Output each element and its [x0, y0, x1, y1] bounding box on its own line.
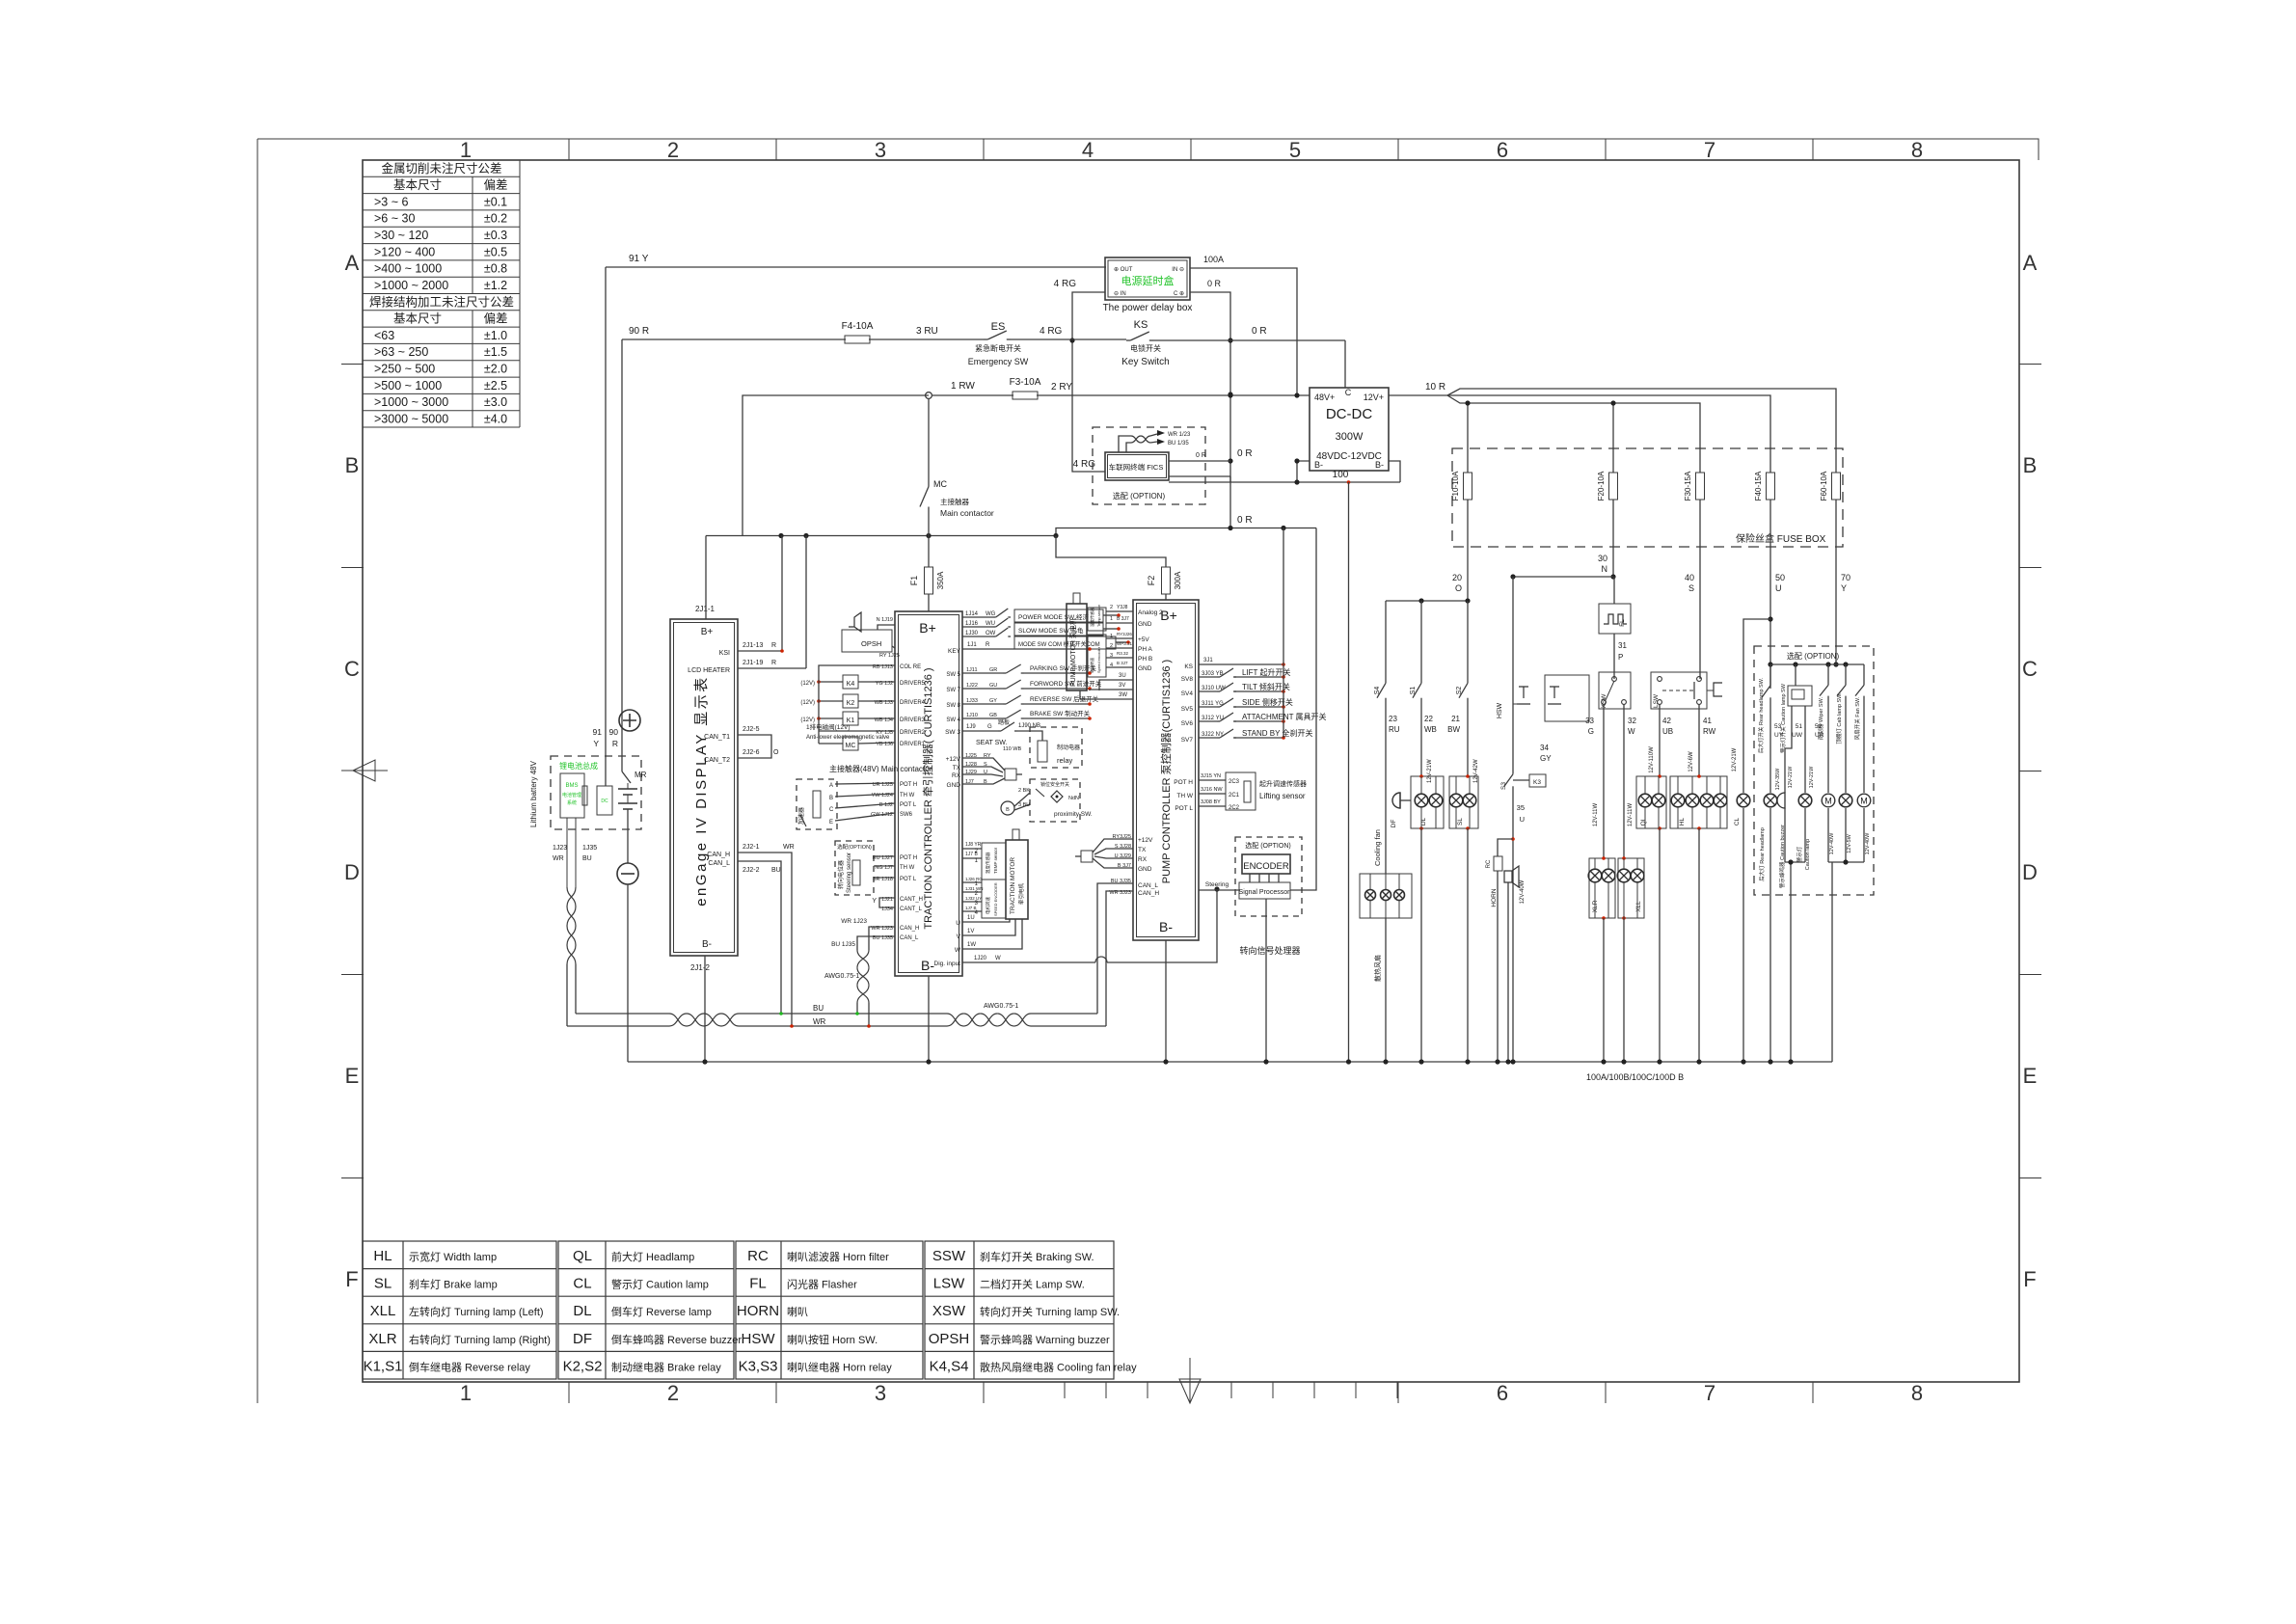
svg-text:金属切削未注尺寸公差: 金属切削未注尺寸公差 — [381, 161, 501, 176]
svg-text:DF: DF — [573, 1331, 592, 1347]
svg-text:12V-21W: 12V-21W — [1788, 766, 1794, 788]
svg-text:2J1-1: 2J1-1 — [695, 605, 716, 613]
svg-text:CANT_L: CANT_L — [900, 907, 923, 912]
pump motor temp sensor box — [1088, 604, 1133, 631]
svg-text:2J1-19: 2J1-19 — [743, 660, 764, 666]
svg-text:1J7 B: 1J7 B — [965, 906, 977, 910]
svg-text:⊖ IN: ⊖ IN — [1114, 291, 1126, 297]
svg-text:HL: HL — [1679, 817, 1686, 826]
svg-text:2 BK: 2 BK — [1018, 788, 1030, 794]
svg-text:DL: DL — [573, 1303, 591, 1319]
enGage KSI wire 2J1-13 R — [738, 536, 784, 653]
svg-text:锂电池总成: 锂电池总成 — [559, 761, 598, 771]
CAN bus WR line — [567, 1017, 1106, 1026]
traction motor block — [1006, 829, 1028, 919]
svg-text:±0.1: ±0.1 — [484, 195, 507, 208]
svg-text:F30-15A: F30-15A — [1684, 471, 1692, 501]
traction comm connector — [946, 753, 1022, 789]
svg-text:12V-110W: 12V-110W — [1649, 746, 1655, 773]
svg-text:WU: WU — [986, 621, 995, 627]
svg-text:S: S — [1688, 583, 1694, 593]
svg-text:SW 8: SW 8 — [946, 703, 960, 709]
svg-text:R3.32: R3.32 — [1117, 651, 1129, 656]
svg-text:选配 (OPTION): 选配 (OPTION) — [1787, 651, 1840, 661]
svg-text:CANT_H: CANT_H — [900, 897, 923, 903]
traction dig input pin — [934, 886, 1220, 967]
svg-text:RY 1J25: RY 1J25 — [879, 653, 900, 659]
svg-text:LSW: LSW — [933, 1276, 965, 1292]
svg-text:Steering: Steering — [1205, 881, 1229, 888]
rear headlamp switch — [1757, 664, 1770, 753]
svg-text:>3000 ~ 5000: >3000 ~ 5000 — [374, 413, 448, 426]
svg-text:主接触器: 主接触器 — [940, 497, 969, 506]
svg-text:20: 20 — [1452, 573, 1462, 582]
svg-text:0 R: 0 R — [1207, 279, 1222, 288]
svg-text:42: 42 — [1662, 717, 1671, 725]
column numbers top — [460, 138, 1923, 162]
traction U V W motor wires — [955, 915, 1022, 954]
svg-text:CAN_T1: CAN_T1 — [704, 734, 730, 741]
svg-text:12V-11W: 12V-11W — [1593, 803, 1599, 827]
drawing outer border — [257, 139, 2039, 1403]
svg-text:S4: S4 — [1374, 687, 1381, 695]
svg-text:喇叭: 喇叭 — [787, 1305, 808, 1318]
relay K2 — [800, 694, 895, 708]
fuse F40-15A — [1754, 471, 1775, 501]
svg-text:HSW: HSW — [1497, 702, 1503, 718]
legend table — [363, 1241, 556, 1379]
power delay box KS1 — [1103, 257, 1193, 313]
svg-text:RC: RC — [747, 1248, 769, 1264]
svg-text:B+: B+ — [1160, 608, 1177, 623]
wire 34 GY — [1540, 744, 1552, 763]
svg-text:倒车蜂鸣器 Reverse buzzer: 倒车蜂鸣器 Reverse buzzer — [611, 1333, 742, 1346]
svg-text:LCD HEATER: LCD HEATER — [688, 667, 730, 674]
svg-text:3V: 3V — [1119, 683, 1125, 689]
svg-text:PH B: PH B — [1138, 656, 1152, 663]
svg-text:KS: KS — [1134, 319, 1148, 331]
tolerance table — [363, 160, 520, 427]
svg-text:制动继电器 Brake relay: 制动继电器 Brake relay — [611, 1361, 721, 1373]
svg-text:焊接结构加工未注尺寸公差: 焊接结构加工未注尺寸公差 — [369, 294, 514, 309]
svg-text:1J8 YR: 1J8 YR — [965, 842, 982, 848]
svg-text:DF: DF — [1391, 820, 1397, 828]
svg-text:1: 1 — [1110, 616, 1113, 622]
svg-text:7: 7 — [1704, 138, 1715, 162]
svg-text:SW 5: SW 5 — [946, 672, 960, 678]
turning lamp left XLL group — [1617, 856, 1644, 920]
svg-text:1J10: 1J10 — [966, 713, 978, 718]
svg-text:U: U — [956, 920, 960, 927]
svg-text:警示灯 Caution lamp: 警示灯 Caution lamp — [611, 1278, 709, 1291]
svg-text:转向灯开关 Turning lamp SW.: 转向灯开关 Turning lamp SW. — [980, 1305, 1120, 1318]
svg-text:23: 23 — [1389, 715, 1397, 723]
svg-text:RW: RW — [1703, 727, 1716, 736]
svg-text:S1: S1 — [1410, 687, 1417, 695]
steering label wire — [1199, 881, 1239, 890]
svg-text:电池管理: 电池管理 — [562, 792, 581, 798]
svg-text:风扇开关 Fan SW.: 风扇开关 Fan SW. — [1853, 696, 1861, 740]
svg-text:Emergency SW: Emergency SW — [968, 357, 1029, 366]
svg-text:>63 ~ 250: >63 ~ 250 — [374, 345, 428, 359]
svg-text:DRIVER2: DRIVER2 — [900, 730, 926, 736]
svg-text:>250 ~ 500: >250 ~ 500 — [374, 363, 435, 376]
svg-text:GB: GB — [989, 713, 997, 718]
svg-text:XLR: XLR — [368, 1331, 396, 1347]
bottom B- bus 100A 100B 100C 100D — [628, 887, 1832, 1082]
wire 91 Y top rail — [606, 254, 1106, 267]
FICS telematics box — [1105, 452, 1169, 480]
svg-text:1J1: 1J1 — [967, 642, 977, 648]
horn switch HSW buttons — [1497, 577, 1589, 771]
svg-text:The power delay box: The power delay box — [1103, 303, 1193, 313]
width lamp HL group — [1670, 774, 1727, 830]
svg-text:B+: B+ — [919, 620, 936, 636]
svg-text:5: 5 — [1289, 138, 1301, 162]
svg-text:BU: BU — [813, 1004, 824, 1013]
rear headlamp wire to bus — [1769, 808, 1771, 1062]
svg-text:Caution lamp: Caution lamp — [1805, 839, 1811, 870]
svg-text:GY: GY — [1540, 754, 1552, 763]
svg-text:0 R: 0 R — [1252, 326, 1267, 337]
lamp group branch wires — [1421, 776, 1720, 918]
svg-text:12V+: 12V+ — [1364, 392, 1384, 402]
svg-text:R: R — [771, 642, 776, 649]
svg-text:选配 (OPTION): 选配 (OPTION) — [1113, 491, 1166, 501]
svg-text:3J03 YB: 3J03 YB — [1202, 671, 1224, 677]
svg-text:Analog 2: Analog 2 — [1138, 609, 1163, 616]
svg-text:WR 1J23: WR 1J23 — [841, 918, 867, 925]
svg-text:CL: CL — [1734, 817, 1741, 826]
svg-text:1J20: 1J20 — [974, 956, 987, 961]
svg-text:WR: WR — [783, 844, 795, 851]
enGage CAN_T1 CAN_T2 terminator loop — [738, 726, 779, 758]
battery BMS CAN twisted pair — [553, 818, 597, 1026]
wire 23 RU — [1386, 701, 1400, 874]
svg-text:B-: B- — [1375, 460, 1384, 470]
svg-text:Speed encoder: Speed encoder — [1096, 646, 1101, 673]
svg-text:E: E — [2023, 1064, 2038, 1088]
svg-text:B: B — [2023, 453, 2038, 477]
battery disconnect switch MR — [622, 771, 647, 783]
svg-text:温度传感器: 温度传感器 — [985, 852, 991, 874]
fuse F30-15A — [1684, 471, 1705, 501]
emergency switch ES — [968, 321, 1072, 366]
svg-text:3 BU: 3 BU — [1018, 802, 1030, 808]
steering sensor wires — [874, 856, 895, 878]
svg-text:右转向灯 Turning lamp (Right): 右转向灯 Turning lamp (Right) — [409, 1333, 551, 1346]
svg-text:POT H: POT H — [1174, 779, 1193, 786]
svg-text:警示蜂鸣器 Warning buzzer: 警示蜂鸣器 Warning buzzer — [980, 1333, 1110, 1346]
svg-text:G: G — [987, 724, 992, 730]
svg-text:C: C — [2022, 657, 2038, 681]
svg-text:SV4: SV4 — [1181, 690, 1194, 697]
fuse F60-10A — [1820, 471, 1841, 501]
caution group wire to bus — [1785, 723, 1824, 1062]
svg-text:B: B — [829, 796, 833, 801]
svg-text:HL: HL — [373, 1248, 392, 1264]
svg-text:2J2-1: 2J2-1 — [743, 844, 760, 851]
pump motor block — [1067, 593, 1087, 690]
svg-text:R: R — [986, 642, 990, 648]
svg-text:SV8: SV8 — [1181, 676, 1194, 683]
svg-text:DC-DC: DC-DC — [1326, 406, 1372, 422]
svg-text:Lithium battery 48V: Lithium battery 48V — [529, 760, 538, 827]
CAN bus BU line — [576, 1004, 1097, 1014]
svg-text:>3 ~ 6: >3 ~ 6 — [374, 195, 408, 208]
reverse buzzer DF — [1391, 793, 1411, 827]
FICS option dashed box — [1093, 427, 1205, 504]
svg-text:系统: 系统 — [567, 799, 577, 806]
accelerator dashed box ACC — [797, 779, 837, 829]
traction CAN_L wire BU 1J35 — [831, 936, 895, 950]
traction CANT terminator wires — [872, 898, 895, 907]
horn speaker HORN — [1491, 866, 1526, 1062]
svg-text:偏差: 偏差 — [483, 177, 507, 192]
svg-text:F40-15A: F40-15A — [1754, 471, 1763, 501]
svg-text:SW6: SW6 — [900, 812, 913, 818]
svg-text:BU: BU — [771, 867, 781, 874]
svg-text:2: 2 — [667, 1381, 679, 1405]
svg-text:12V-40W: 12V-40W — [1865, 832, 1871, 854]
svg-text:12V-5W: 12V-5W — [1847, 833, 1852, 853]
battery negative wire to bottom bus — [627, 884, 629, 1062]
encoder option dashed box — [1235, 837, 1302, 916]
svg-text:基本尺寸: 基本尺寸 — [393, 312, 442, 326]
svg-text:3J08 BY: 3J08 BY — [1201, 799, 1221, 805]
svg-text:闪光器 Flasher: 闪光器 Flasher — [787, 1278, 857, 1291]
svg-text:电机转速: 电机转速 — [1089, 658, 1094, 673]
wire 35 U — [1513, 789, 1525, 1062]
svg-text:1J30: 1J30 — [965, 631, 979, 636]
svg-text:MR: MR — [635, 771, 647, 779]
svg-text:3J1: 3J1 — [1203, 658, 1213, 663]
svg-text:CAN_H: CAN_H — [1138, 890, 1159, 897]
svg-text:TX: TX — [953, 765, 961, 771]
svg-text:<63: <63 — [374, 329, 394, 342]
svg-text:S3: S3 — [1500, 782, 1507, 790]
svg-text:OPSH: OPSH — [929, 1331, 970, 1347]
wire 31 P — [1614, 634, 1627, 679]
proximity switch wires 2 BK 3 BU — [1001, 788, 1030, 815]
lithium battery dashed box — [529, 756, 641, 829]
svg-text:Steering sensor: Steering sensor — [847, 853, 852, 893]
svg-text:KS: KS — [1184, 663, 1193, 670]
svg-text:50: 50 — [1775, 573, 1785, 582]
CAN twisted section left — [669, 1014, 739, 1026]
svg-text:1: 1 — [460, 1381, 472, 1405]
svg-text:U: U — [1775, 583, 1782, 593]
svg-text:B 3J7: B 3J7 — [1117, 661, 1128, 665]
svg-text:TEMP sensor: TEMP sensor — [993, 847, 998, 874]
drawing inner border frame — [363, 160, 2019, 1382]
svg-text:Signal Processor: Signal Processor — [1239, 889, 1291, 896]
svg-text:SL: SL — [1457, 818, 1464, 826]
svg-text:R: R — [771, 660, 776, 666]
switch S3 and relay K3 — [1500, 771, 1546, 790]
caution lamp in option box — [1792, 706, 1815, 870]
pump comm connector — [1075, 834, 1153, 873]
cooling fan lamp group — [1360, 829, 1412, 982]
svg-text:SW 7: SW 7 — [946, 688, 960, 693]
svg-text:1J16: 1J16 — [965, 621, 979, 627]
relay K4 — [800, 675, 895, 689]
svg-text:12V-40W: 12V-40W — [1829, 832, 1835, 854]
enGage CAN_H wire 2J2-1 WR — [738, 844, 795, 1028]
svg-text:S2: S2 — [1456, 687, 1463, 695]
svg-text:2 RY: 2 RY — [1051, 382, 1072, 392]
wire 70 Y from F60 — [1833, 500, 1850, 667]
fuse F4-10A — [842, 321, 984, 343]
svg-text:1J26 RG: 1J26 RG — [965, 877, 983, 881]
svg-text:W: W — [1628, 727, 1635, 736]
svg-text:KEY: KEY — [948, 648, 961, 655]
svg-text:TRACTION CONTROLLER 牵引控制器( CUR: TRACTION CONTROLLER 牵引控制器( CURTIS1236 ) — [921, 667, 934, 929]
svg-text:8: 8 — [1911, 1381, 1923, 1405]
svg-text:GND: GND — [947, 782, 961, 789]
svg-text:牵引电机: 牵引电机 — [1017, 882, 1025, 905]
svg-text:3U: 3U — [1119, 673, 1126, 679]
svg-text:TX: TX — [1138, 847, 1147, 853]
svg-text:OPSH: OPSH — [861, 639, 881, 648]
svg-text:relay: relay — [1057, 756, 1073, 765]
svg-text:K3: K3 — [1533, 779, 1541, 786]
svg-text:±2.0: ±2.0 — [484, 363, 507, 376]
svg-text:(12V): (12V) — [800, 717, 815, 723]
svg-text:31: 31 — [1618, 641, 1627, 650]
svg-text:2: 2 — [667, 138, 679, 162]
svg-text:2J2-2: 2J2-2 — [743, 867, 760, 874]
traction motor speed encoder box — [962, 877, 1006, 918]
svg-text:F1: F1 — [909, 576, 919, 586]
svg-text:21: 21 — [1451, 715, 1460, 723]
wire 41 RW — [1688, 704, 1716, 776]
fuse box dashed outline — [1452, 448, 1843, 547]
svg-text:GND: GND — [1138, 621, 1152, 628]
svg-text:Anti-lower electromagnetic val: Anti-lower electromagnetic valve — [806, 735, 890, 741]
svg-text:F4-10A: F4-10A — [842, 321, 874, 332]
svg-text:(12V): (12V) — [800, 681, 815, 687]
svg-text:SW 3: SW 3 — [945, 729, 960, 736]
svg-text:N: N — [1602, 564, 1608, 574]
svg-text:100: 100 — [1333, 470, 1349, 480]
wire 100 B- down to bottom bus — [1348, 482, 1350, 1062]
traction SW 7 FORWORD switch — [946, 679, 1101, 693]
pump right KS pin wire 3J1 — [1184, 658, 1284, 670]
enGage CAN_L wire 2J2-2 BU — [738, 861, 783, 1015]
svg-text:300A: 300A — [1174, 571, 1182, 589]
svg-text:示宽灯 Width lamp: 示宽灯 Width lamp — [409, 1250, 497, 1263]
svg-text:90 R: 90 R — [629, 326, 649, 337]
svg-text:锁位安全开关: 锁位安全开关 — [1040, 781, 1069, 788]
svg-text:倒车继电器 Reverse relay: 倒车继电器 Reverse relay — [409, 1360, 530, 1373]
accelerator wires to traction — [835, 783, 895, 821]
DL SL wires to bottom bus — [1421, 828, 1468, 1062]
svg-text:HORN: HORN — [737, 1303, 779, 1319]
CAN twisted section right AWG0.75-1 — [947, 1003, 1031, 1026]
svg-text:Y3J8: Y3J8 — [1117, 605, 1128, 610]
svg-text:0 R: 0 R — [1237, 448, 1253, 459]
wire 91 Y down to battery — [593, 267, 606, 786]
svg-text:1: 1 — [1110, 634, 1113, 639]
svg-text:TH W: TH W — [900, 793, 915, 798]
svg-text:⊕ OUT: ⊕ OUT — [1114, 267, 1133, 273]
svg-text:踏板: 踏板 — [998, 718, 1010, 726]
left row ticks — [341, 365, 364, 1178]
reverse lamp DL group — [1411, 774, 1444, 830]
rear headlamp lamp — [1758, 700, 1784, 881]
svg-text:B-: B- — [1159, 919, 1173, 934]
svg-text:QL: QL — [573, 1248, 592, 1264]
svg-text:WR: WR — [813, 1017, 826, 1026]
svg-text:CAN_H: CAN_H — [707, 852, 730, 858]
battery relay small box — [597, 786, 612, 815]
svg-text:2: 2 — [1110, 643, 1113, 649]
wire 33 G — [1585, 704, 1604, 858]
svg-text:4: 4 — [1082, 138, 1094, 162]
svg-text:SPEED ENCODER: SPEED ENCODER — [993, 882, 998, 916]
svg-text:Y: Y — [872, 898, 877, 905]
anti-lower electromagnetic valve label — [806, 722, 895, 741]
svg-text:CAN_L: CAN_L — [1138, 882, 1158, 889]
svg-text:U: U — [1520, 815, 1525, 824]
svg-text:10 R: 10 R — [1425, 382, 1445, 392]
svg-text:M: M — [1824, 797, 1832, 806]
pump valve supply vertical 0R — [1283, 528, 1284, 739]
svg-text:MC: MC — [933, 479, 947, 489]
svg-text:C: C — [829, 807, 834, 813]
svg-text:RY3J26: RY3J26 — [1117, 632, 1132, 636]
lamp switch LSW — [1651, 672, 1722, 709]
svg-text:HORN: HORN — [1491, 888, 1498, 907]
traction controller left pin labels — [871, 664, 926, 941]
svg-text:PUMP MOTOR 泵电机: PUMP MOTOR 泵电机 — [1068, 618, 1077, 687]
svg-text:3W: 3W — [1119, 692, 1127, 698]
svg-text:警示灯开关 Caution lamp SW: 警示灯开关 Caution lamp SW — [1779, 683, 1787, 753]
svg-text:12V-21W: 12V-21W — [1732, 747, 1738, 771]
traction right pin rows power modes — [962, 609, 1130, 649]
svg-text:GND: GND — [1138, 665, 1152, 672]
wire 21 BW — [1447, 701, 1479, 783]
QL HL wires to bottom bus — [1660, 828, 1699, 1062]
caution lamp CL — [1732, 619, 1770, 1062]
svg-text:2J1-2: 2J1-2 — [690, 963, 711, 972]
svg-text:proximity SW.: proximity SW. — [1054, 811, 1093, 818]
svg-text:ENCODER: ENCODER — [1243, 861, 1289, 872]
svg-text:GND: GND — [1138, 866, 1152, 873]
svg-text:FL: FL — [749, 1276, 767, 1292]
svg-text:E: E — [829, 820, 833, 826]
svg-text:B: B — [1006, 807, 1010, 813]
cooling fan wire to bottom bus — [1385, 918, 1387, 1062]
fuse F10-10A — [1451, 471, 1472, 501]
svg-text:A: A — [2023, 251, 2038, 275]
traction KEY pin wire — [948, 642, 1092, 655]
svg-text:喇叭按钮 Horn SW.: 喇叭按钮 Horn SW. — [787, 1333, 878, 1346]
svg-text:F60-10A: F60-10A — [1820, 471, 1828, 501]
svg-text:后大灯 Rear headlamp: 后大灯 Rear headlamp — [1758, 827, 1766, 881]
pump valve switch SV4 TILT — [1181, 682, 1290, 697]
svg-text:温度传感器: 温度传感器 — [1089, 608, 1094, 627]
svg-text:喇叭继电器 Horn relay: 喇叭继电器 Horn relay — [787, 1360, 892, 1373]
svg-text:2: 2 — [1110, 605, 1113, 610]
svg-text:Key Switch: Key Switch — [1121, 357, 1169, 367]
svg-text:±1.5: ±1.5 — [484, 345, 507, 359]
svg-text:110 WB: 110 WB — [1003, 746, 1021, 752]
horn feed rail — [1510, 574, 1613, 579]
svg-text:二档灯开关 Lamp SW.: 二档灯开关 Lamp SW. — [980, 1278, 1085, 1291]
svg-text:7: 7 — [1704, 1381, 1715, 1405]
